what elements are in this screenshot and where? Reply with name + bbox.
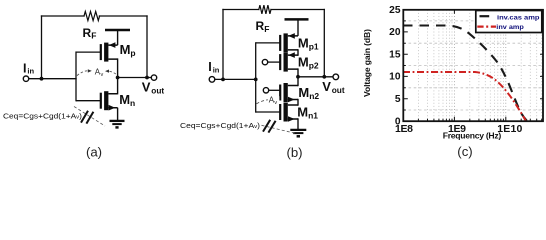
svg-text:20: 20	[389, 27, 401, 38]
terminal bias Mn2 gate (b)	[263, 88, 268, 93]
svg-text:v: v	[101, 72, 104, 78]
node feedback-output junction (a)	[145, 76, 149, 80]
annotation Ceq slashes (a)	[81, 111, 93, 124]
wire feedback left leg (a)	[41, 16, 43, 79]
wire Mp2-output link (b)	[297, 69, 299, 77]
annotation Ceq leader (a)	[74, 107, 105, 127]
svg-text:V: V	[142, 80, 151, 95]
power VDD bar (b)	[285, 18, 309, 21]
svg-text:n2: n2	[309, 91, 319, 101]
label Mp2 (b)	[298, 55, 319, 71]
label RF (a)	[83, 26, 97, 41]
y tick labels	[389, 5, 401, 127]
terminal input Iin (b)	[209, 77, 215, 83]
transistor Mp (a) PMOS	[76, 31, 118, 62]
svg-text:I: I	[208, 60, 211, 74]
label Mn2 (b)	[298, 85, 319, 101]
curve inv.cas amp (black dashed)	[403, 26, 527, 121]
x tick labels	[395, 123, 522, 135]
label RF (b)	[256, 19, 270, 34]
svg-text:out: out	[332, 85, 345, 95]
svg-text:5: 5	[395, 94, 401, 105]
svg-text:p: p	[130, 48, 135, 58]
transistor Mp1 (b) PMOS	[256, 20, 298, 52]
ground (a)	[110, 121, 125, 128]
label Mn (a)	[119, 92, 135, 108]
label Vout (a)	[142, 80, 165, 96]
annotation Av gain arrow (a)	[77, 67, 118, 78]
annotation Av gain arrow (b)	[257, 96, 281, 106]
svg-text:inv.cas amp: inv.cas amp	[497, 15, 540, 22]
transistor Mn1 (b) NMOS	[256, 103, 298, 122]
wire feedback top (a)	[42, 15, 148, 17]
annotation Ceq slashes (b)	[263, 120, 276, 133]
wire drain rail (a)	[117, 59, 119, 94]
legend sample inv.cas amp	[480, 15, 490, 17]
transistor Mn2 (b) NMOS cascode	[269, 83, 298, 102]
label Iin (b)	[208, 60, 219, 74]
svg-text:Ceq=Cgs+Cgd(1+Av): Ceq=Cgs+Cgd(1+Av)	[180, 121, 260, 130]
terminal output Vout (a)	[151, 75, 156, 80]
svg-text:in: in	[213, 66, 220, 75]
terminal bias Mp2 gate (b)	[262, 59, 267, 64]
label Vout (b)	[322, 79, 345, 95]
legend box	[476, 11, 542, 33]
label Mn1 (b)	[297, 104, 318, 120]
svg-text:n: n	[130, 98, 135, 108]
svg-text:M: M	[298, 85, 309, 100]
power VDD bar (a)	[105, 29, 130, 32]
node output tee (a)	[116, 76, 120, 80]
wire output (a)	[118, 77, 152, 79]
svg-text:v: v	[274, 100, 277, 106]
svg-text:(a): (a)	[86, 144, 102, 159]
wire gate vertical (a)	[75, 52, 77, 101]
wire Mn2-Mn1 link (b)	[297, 100, 299, 106]
grid horizontal	[403, 21, 543, 110]
transistor Mp2 (b) PMOS cascode	[268, 52, 298, 71]
wire gate vertical (b)	[255, 43, 257, 112]
terminal output Vout (b)	[333, 74, 339, 80]
svg-text:R: R	[256, 19, 265, 33]
legend sample inv amp	[477, 26, 496, 28]
svg-text:M: M	[120, 42, 131, 57]
node input junction (b)	[221, 78, 225, 82]
plot border	[403, 10, 543, 121]
wire output (b)	[298, 76, 333, 78]
curve inv amp (red dash-dot)	[403, 72, 526, 121]
wire Mn2-output link (b)	[297, 77, 299, 86]
svg-text:Voltage gain (dB): Voltage gain (dB)	[362, 29, 372, 97]
node output junction (b)	[296, 75, 300, 79]
svg-text:in: in	[27, 67, 34, 76]
svg-text:M: M	[298, 55, 309, 70]
svg-text:n1: n1	[308, 110, 318, 120]
svg-text:p1: p1	[309, 42, 319, 52]
wire feedback top (b)	[223, 9, 324, 11]
svg-text:I: I	[23, 61, 26, 75]
label Mp (a)	[120, 42, 136, 58]
svg-text:M: M	[298, 36, 309, 51]
svg-text:inv amp: inv amp	[496, 24, 524, 31]
svg-text:25: 25	[389, 5, 401, 16]
label Iin (a)	[23, 61, 34, 75]
wire feedback left leg (b)	[222, 10, 224, 80]
label Mp1 (b)	[298, 36, 319, 52]
svg-text:R: R	[83, 26, 92, 40]
svg-text:V: V	[322, 79, 331, 94]
grid vertical minor	[418, 10, 541, 121]
transistor Mn (a) NMOS	[76, 91, 118, 120]
resistor RF (b)	[259, 5, 271, 14]
terminal input Iin (a)	[23, 76, 28, 81]
svg-text:M: M	[297, 104, 308, 119]
svg-text:F: F	[91, 31, 96, 41]
svg-text:1E8: 1E8	[395, 123, 413, 135]
svg-text:(b): (b)	[286, 145, 302, 160]
wire Mp1-Mp2 link (b)	[297, 50, 299, 55]
svg-text:15: 15	[389, 49, 401, 60]
annotation Ceq leader (b)	[262, 125, 297, 133]
svg-text:F: F	[264, 24, 269, 34]
axis ticks	[403, 10, 543, 121]
node gate junction (b)	[254, 78, 258, 82]
svg-text:Ceq=Cgs+Cgd(1+Av): Ceq=Cgs+Cgd(1+Av)	[3, 112, 82, 121]
ground (b)	[290, 130, 306, 136]
svg-text:(c): (c)	[457, 144, 472, 159]
svg-text:p2: p2	[309, 61, 319, 71]
resistor RF (a)	[84, 11, 100, 20]
svg-text:out: out	[151, 85, 164, 95]
wire feedback right leg (a)	[146, 16, 148, 78]
wire Mn1-ground link (b)	[297, 119, 299, 129]
svg-text:M: M	[119, 92, 130, 107]
grid vertical major	[454, 10, 505, 121]
wire input (a)	[29, 78, 76, 80]
wire feedback right leg (b)	[323, 10, 325, 77]
wire input (b)	[215, 78, 256, 80]
svg-text:10: 10	[389, 72, 401, 83]
node feedback-output junction (b)	[322, 75, 326, 79]
svg-text:Frequency (Hz): Frequency (Hz)	[443, 131, 502, 141]
node input junction (a)	[40, 77, 44, 81]
